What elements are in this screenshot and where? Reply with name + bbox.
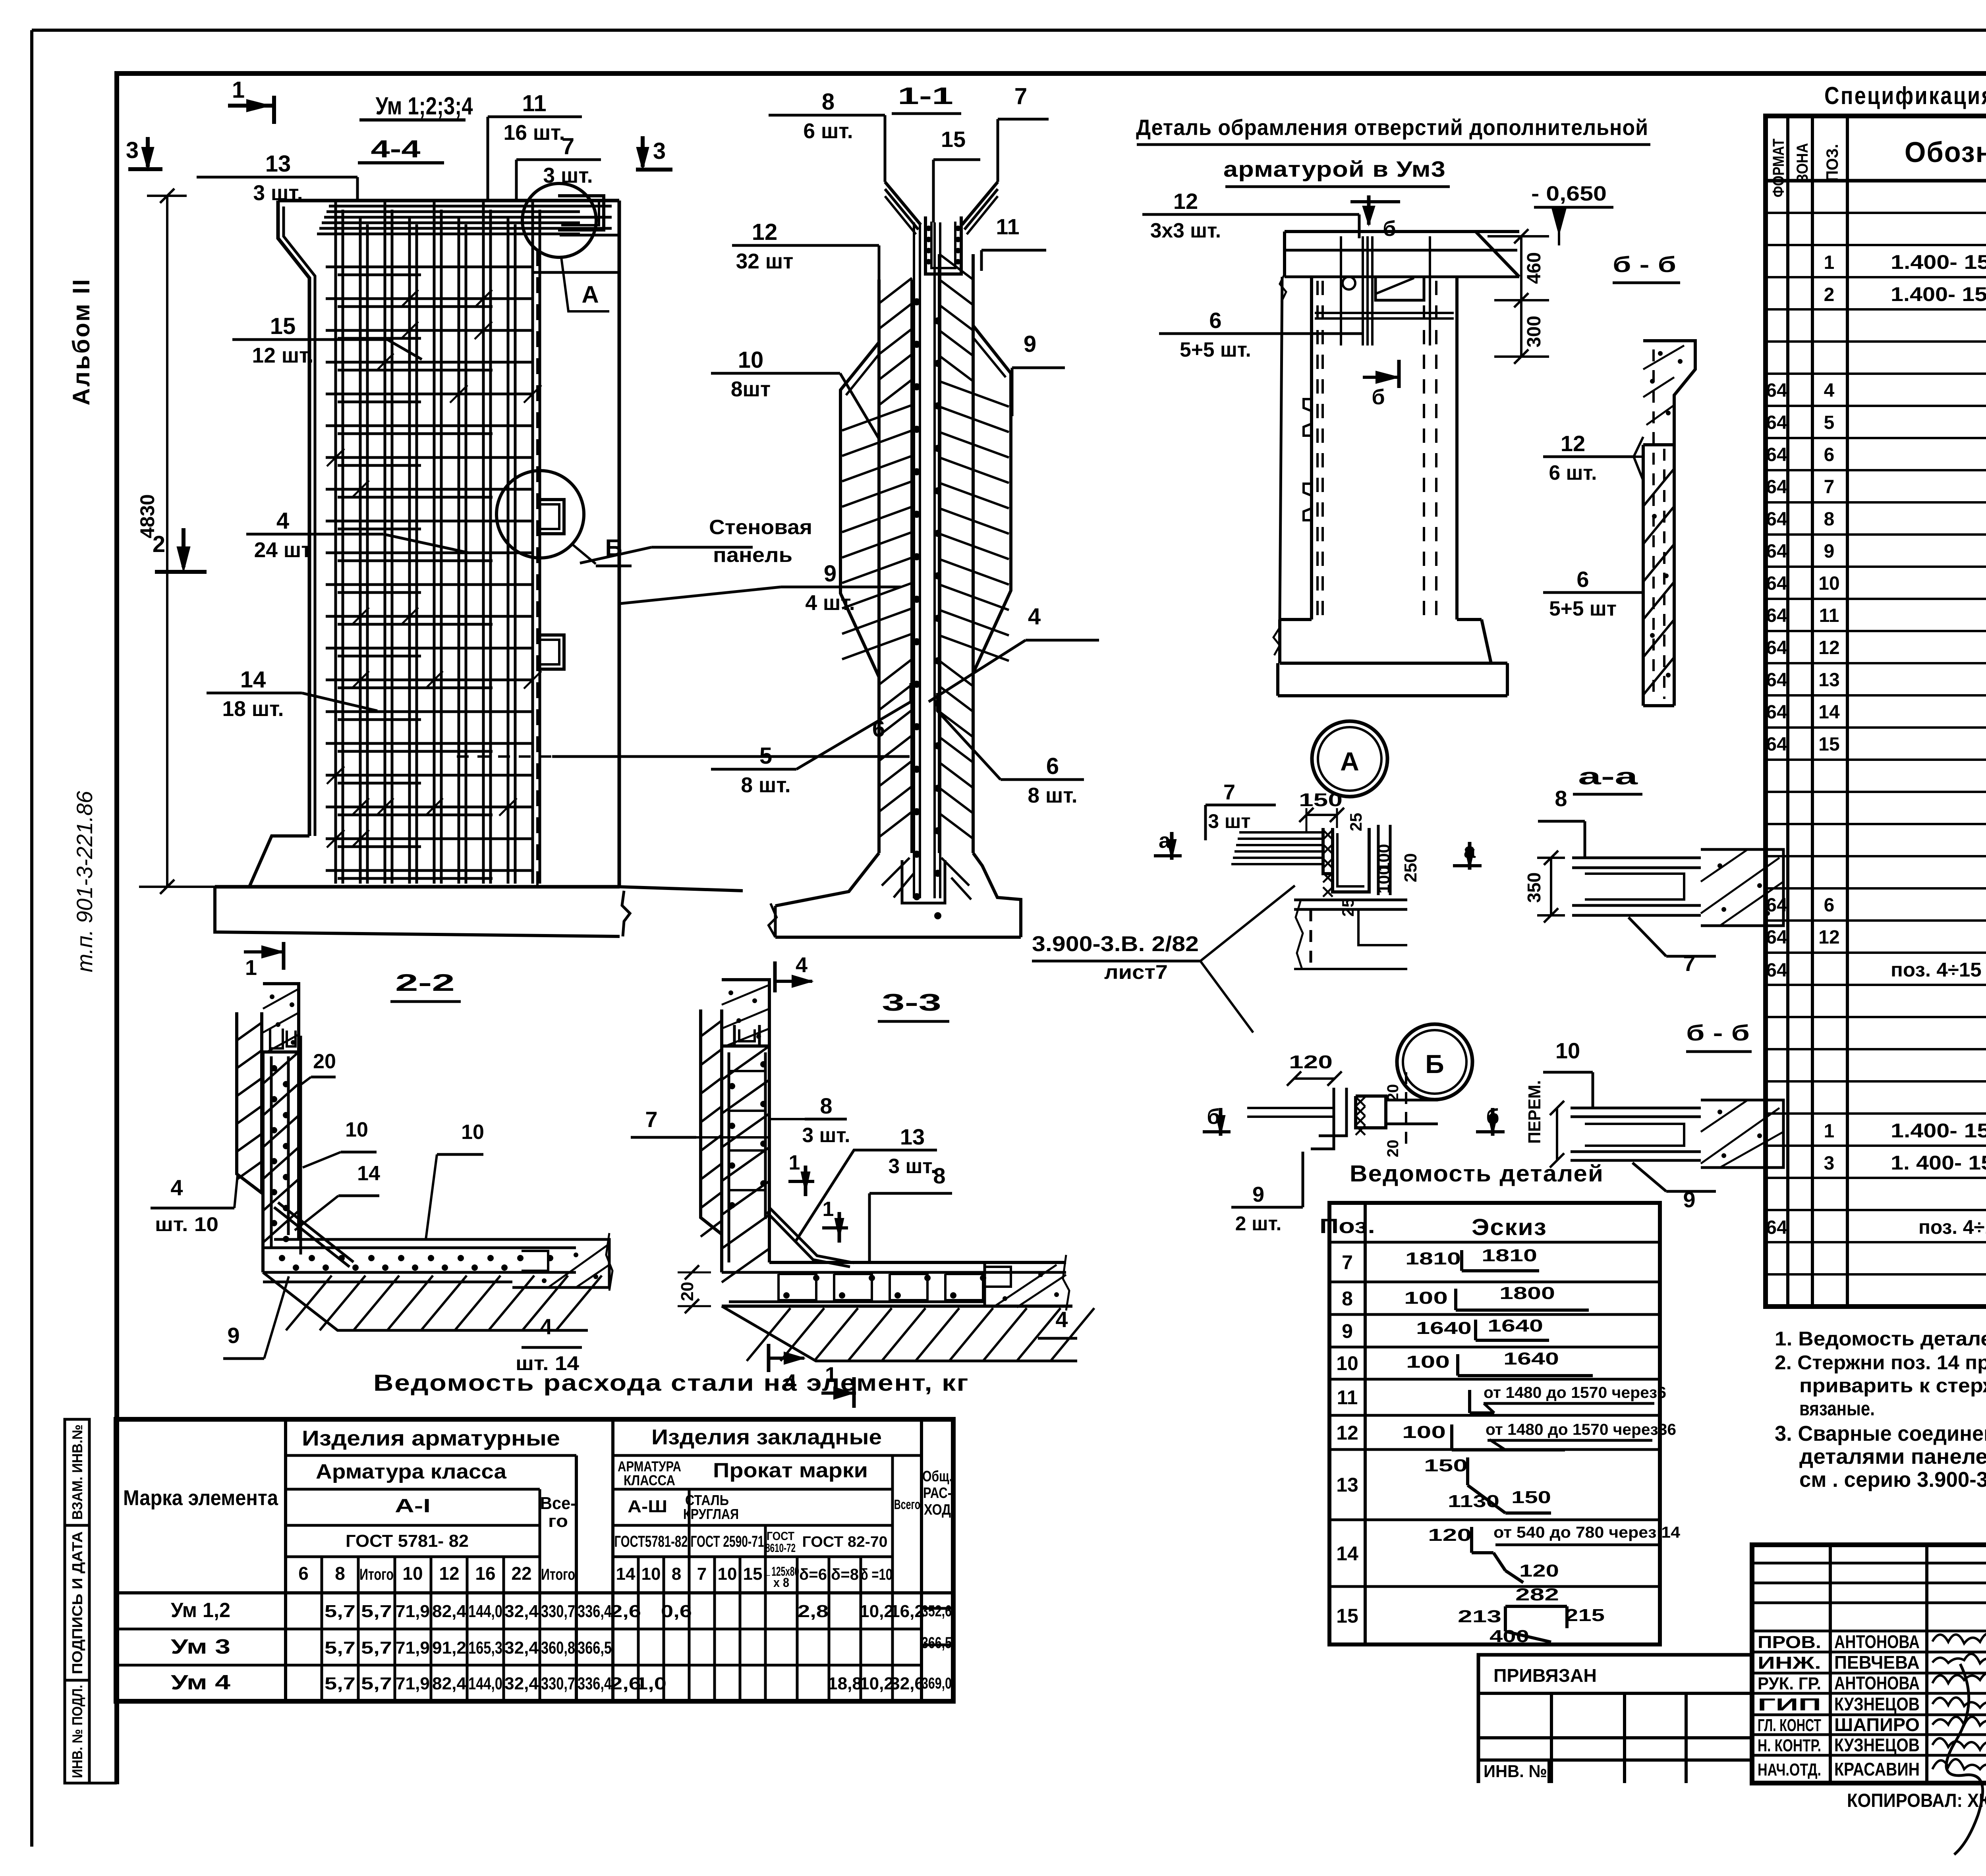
- detail A panel below: [1294, 899, 1407, 901]
- title block row labels: [1752, 1630, 1986, 1633]
- b section mark top: [1367, 195, 1371, 225]
- svg-text:НАЧ.ОТД.: НАЧ.ОТД.: [1758, 1760, 1821, 1779]
- svg-text:8: 8: [1555, 786, 1567, 811]
- svg-text:2,6: 2,6: [610, 1602, 641, 1621]
- svg-text:Н. КОНТР.: Н. КОНТР.: [1758, 1736, 1821, 1755]
- svg-text:ПОЗ.: ПОЗ.: [1823, 144, 1841, 182]
- svg-text:150: 150: [1511, 1488, 1551, 1507]
- svg-text:5,7: 5,7: [325, 1602, 355, 1621]
- dimension 4830 left: [166, 196, 168, 887]
- svg-text:10: 10: [718, 1564, 737, 1584]
- detail B plate drawing: [1311, 1088, 1334, 1149]
- 3-3 left hatch band existing wall: [701, 1009, 722, 1234]
- panel bottom-left step: [250, 836, 309, 886]
- foundation slab 4-4: [215, 887, 620, 936]
- svg-text:1640: 1640: [1503, 1349, 1559, 1368]
- svg-text:14: 14: [616, 1564, 636, 1584]
- column center rebar pairs: [913, 222, 915, 898]
- svg-text:б: б: [1372, 385, 1385, 409]
- svg-text:ПРОВ.: ПРОВ.: [1758, 1633, 1821, 1652]
- outer sheet border: [32, 29, 1986, 32]
- 2-2 rebar 20 line: [299, 1036, 302, 1255]
- 2-2 top U notch pair: [270, 1029, 283, 1048]
- a-a concrete block right: [1701, 849, 1783, 926]
- svg-text:КЛАССА: КЛАССА: [624, 1472, 675, 1488]
- svg-text:РУК. ГР.: РУК. ГР.: [1758, 1674, 1821, 1693]
- svg-text:150: 150: [1299, 789, 1343, 810]
- svg-text:64: 64: [1766, 509, 1787, 530]
- svg-text:1130: 1130: [1448, 1492, 1499, 1511]
- svg-text:ИНЖ.: ИНЖ.: [1758, 1653, 1821, 1673]
- svg-text:5,7: 5,7: [361, 1602, 392, 1621]
- svg-text:от 1480 до 1570 через36: от 1480 до 1570 через36: [1486, 1421, 1676, 1438]
- b-b lower concrete right: [1701, 1100, 1783, 1168]
- svg-text:10: 10: [402, 1563, 423, 1584]
- svg-text:9: 9: [1824, 541, 1835, 562]
- svg-text:100: 100: [1402, 1422, 1446, 1442]
- svg-text:1.400- 15.В1. 150-23: 1.400- 15.В1. 150-23: [1891, 1119, 1986, 1142]
- svg-text:ГОСТ5781-82: ГОСТ5781-82: [614, 1533, 688, 1550]
- svg-text:120: 120: [1289, 1052, 1333, 1072]
- svg-text:2,8: 2,8: [798, 1602, 829, 1621]
- detail B panel lines left: [1247, 1107, 1335, 1109]
- svg-text:32 шт: 32 шт: [736, 250, 794, 273]
- svg-text:330,7: 330,7: [541, 1674, 575, 1693]
- svg-text:82,4: 82,4: [432, 1602, 467, 1621]
- svg-text:КРУГЛАЯ: КРУГЛАЯ: [683, 1506, 739, 1522]
- pedestal taper hatch: [882, 858, 971, 899]
- svg-text:3.900-3.В. 2/82: 3.900-3.В. 2/82: [1032, 932, 1199, 956]
- svg-text:91,2: 91,2: [432, 1638, 466, 1658]
- svg-text:Ум 4: Ум 4: [171, 1671, 230, 1694]
- svg-text:8: 8: [822, 89, 835, 115]
- detail A break squiggle: [1296, 900, 1303, 969]
- svg-text:ПЕВЧЕВА: ПЕВЧЕВА: [1834, 1652, 1920, 1673]
- svg-text:δ=6: δ=6: [799, 1566, 827, 1583]
- svg-text:14: 14: [1818, 702, 1840, 723]
- svg-text:5: 5: [759, 743, 772, 769]
- svg-text:8 шт.: 8 шт.: [741, 774, 790, 797]
- 3-3 inner stirrups column: [728, 1052, 730, 1262]
- svg-text:71,9: 71,9: [396, 1602, 430, 1621]
- elevation horizontal bars top (poz 6): [1315, 312, 1454, 314]
- svg-text:δ=8: δ=8: [831, 1566, 859, 1583]
- svg-text:2 шт.: 2 шт.: [1235, 1212, 1282, 1235]
- detail circle A on 4-4: [522, 183, 596, 257]
- svg-text:64: 64: [1766, 412, 1787, 433]
- svg-text:Спецификация монолитных уч: Спецификация монолитных участков стен: [1824, 82, 1986, 110]
- 2-2 wall panel top concrete: [263, 984, 299, 1052]
- svg-text:Итого: Итого: [359, 1566, 394, 1583]
- svg-text:ВЗАМ. ИНВ.№: ВЗАМ. ИНВ.№: [69, 1424, 85, 1520]
- svg-text:10: 10: [641, 1564, 661, 1584]
- svg-text:8: 8: [335, 1563, 345, 1584]
- svg-text:т.п. 901-3-221.86: т.п. 901-3-221.86: [72, 791, 97, 973]
- svg-text:120: 120: [1519, 1561, 1559, 1581]
- svg-text:20: 20: [678, 1282, 697, 1301]
- svg-text:10: 10: [1336, 1352, 1358, 1374]
- svg-text:352,6: 352,6: [922, 1602, 952, 1620]
- svg-text:64: 64: [1766, 444, 1787, 465]
- 2-2 section mark 1 top: [244, 950, 284, 953]
- svg-text:поз. 4÷15 см. Ум1: поз. 4÷15 см. Ум1: [1918, 1216, 1986, 1238]
- svg-text:14: 14: [240, 667, 266, 693]
- elevation body: [1310, 277, 1313, 620]
- svg-text:Изделия закладные: Изделия закладные: [651, 1425, 882, 1449]
- dim 460 300 right: [1520, 236, 1522, 357]
- elevation pedestal: [1280, 618, 1312, 621]
- svg-text:64: 64: [1766, 702, 1787, 723]
- svg-text:13: 13: [265, 151, 291, 177]
- big signature flourish: [1946, 1664, 1983, 1855]
- svg-text:5,7: 5,7: [361, 1674, 392, 1693]
- 3-3 right end concrete block: [983, 1262, 986, 1307]
- svg-text:12: 12: [439, 1563, 459, 1584]
- svg-text:Ведомость деталей: Ведомость деталей: [1350, 1161, 1604, 1187]
- detail A vertical bars: [1377, 825, 1380, 895]
- svg-text:2. Стержни поз. 14 привар: 2. Стержни поз. 14 приварить к стержням …: [1775, 1351, 1986, 1374]
- svg-text:Ум 3: Ум 3: [171, 1635, 230, 1658]
- svg-text:Эскиз: Эскиз: [1472, 1214, 1547, 1240]
- svg-text:4830: 4830: [136, 494, 158, 538]
- b-b wall middle with rebar: [1642, 445, 1645, 706]
- svg-text:25: 25: [1347, 813, 1365, 832]
- svg-text:3: 3: [126, 137, 139, 163]
- svg-text:7: 7: [1014, 83, 1027, 109]
- svg-text:9: 9: [824, 561, 837, 587]
- elevation left outer edge full height: [1280, 277, 1282, 620]
- svg-text:Арматура класса: Арматура класса: [316, 1460, 507, 1483]
- svg-text:120: 120: [1428, 1525, 1472, 1545]
- svg-text:Изделия арматурные: Изделия арматурные: [302, 1426, 560, 1450]
- svg-text:5,7: 5,7: [325, 1638, 355, 1658]
- steel table vertical cell lines: [321, 1557, 323, 1701]
- svg-text:8 шт.: 8 шт.: [1028, 784, 1077, 807]
- svg-text:1. Ведомость деталей см.: 1. Ведомость деталей см. на листе КЖ-21.: [1775, 1328, 1986, 1350]
- stamp box INV N PODL: [65, 1680, 89, 1783]
- svg-text:71,9: 71,9: [396, 1674, 430, 1693]
- svg-text:ГИП: ГИП: [1758, 1695, 1821, 1714]
- svg-text:14: 14: [357, 1162, 380, 1185]
- detail B circle label: [1397, 1024, 1472, 1100]
- svg-text:ПОДПИСЬ И ДАТА: ПОДПИСЬ И ДАТА: [69, 1531, 85, 1674]
- steel table header lines: [284, 1419, 287, 1701]
- pedestal stirrup bottom: [902, 860, 945, 903]
- svg-text:3. Сварные соединения арм: 3. Сварные соединения арматурных стержне…: [1775, 1422, 1986, 1446]
- svg-text:ПРИВЯЗАН: ПРИВЯЗАН: [1493, 1665, 1597, 1686]
- elevation inner dashed bars: [1316, 281, 1319, 618]
- svg-text:1: 1: [823, 1198, 834, 1221]
- svg-text:11: 11: [996, 214, 1019, 239]
- svg-text:15: 15: [270, 313, 296, 339]
- 3-3 horizontal leg: [769, 1261, 1066, 1264]
- svg-text:4: 4: [1824, 380, 1835, 401]
- b section mark bottom: [1397, 360, 1401, 388]
- b-b hatch lower: [1643, 469, 1674, 695]
- svg-text:64: 64: [1766, 573, 1787, 594]
- rebar grid verticals 4-4 (pairs): [336, 202, 540, 884]
- rebar grid horizontals 4-4 (pairs: full + short): [326, 267, 533, 878]
- svg-text:369,0: 369,0: [922, 1675, 952, 1692]
- elevation notches left: [1304, 399, 1312, 436]
- svg-text:144,0: 144,0: [468, 1602, 502, 1621]
- svg-text:400: 400: [1489, 1627, 1529, 1646]
- svg-text:3: 3: [653, 138, 666, 164]
- 2-2 inner stirrups column: [270, 1056, 273, 1247]
- svg-text:4: 4: [796, 953, 808, 977]
- svg-text:100: 100: [1374, 866, 1393, 894]
- svg-text:71,9: 71,9: [396, 1638, 430, 1658]
- svg-text:64: 64: [1766, 477, 1787, 498]
- svg-text:18 шт.: 18 шт.: [222, 697, 284, 721]
- svg-text:300: 300: [1524, 316, 1545, 347]
- stamp box VZAM INV: [65, 1419, 89, 1525]
- svg-text:б - б: б - б: [1613, 252, 1676, 277]
- svg-text:3 шт.: 3 шт.: [253, 181, 303, 205]
- svg-text:ПЕРЕМ.: ПЕРЕМ.: [1525, 1080, 1544, 1144]
- 2-2 right end concrete block: [508, 1241, 508, 1287]
- privyazan table strip: [1478, 1655, 1752, 1783]
- svg-text:от 540 до 780 через 14: от 540 до 780 через 14: [1493, 1524, 1681, 1541]
- 3-3 leg stirrup boxes: [779, 1274, 816, 1300]
- svg-text:КРАСАВИН: КРАСАВИН: [1834, 1759, 1920, 1779]
- svg-text:3 шт.: 3 шт.: [543, 164, 593, 187]
- detail A corner plate: [1323, 828, 1333, 874]
- detail A hatch X on plate: [1323, 830, 1333, 897]
- detail A rebar bundle horizontals: [1231, 832, 1323, 864]
- 3-3 vertical wall hatched: [720, 1046, 723, 1272]
- svg-text:16 шт.: 16 шт.: [504, 121, 565, 145]
- svg-text:22: 22: [511, 1563, 531, 1584]
- svg-text:20: 20: [1384, 1084, 1402, 1102]
- svg-text:336,4: 336,4: [578, 1674, 612, 1693]
- svg-text:4: 4: [276, 508, 289, 534]
- svg-text:11: 11: [1819, 605, 1839, 626]
- elevation verticals solid (rebars poz 12): [1340, 236, 1342, 345]
- svg-text:2: 2: [1824, 284, 1835, 305]
- svg-text:1-1: 1-1: [898, 83, 953, 109]
- svg-text:360,8: 360,8: [541, 1638, 575, 1658]
- svg-text:10: 10: [738, 347, 764, 373]
- b-b lower drawing: [1571, 1107, 1701, 1110]
- svg-text:144,0: 144,0: [468, 1674, 502, 1693]
- svg-text:8: 8: [820, 1093, 832, 1118]
- section mark 4 top 3-3: [773, 961, 777, 992]
- svg-text:336,4: 336,4: [578, 1602, 612, 1621]
- section mark 1 top: [228, 104, 274, 108]
- svg-text:100: 100: [1406, 1352, 1450, 1372]
- svg-text:15: 15: [1818, 734, 1839, 755]
- svg-text:32,4: 32,4: [504, 1602, 539, 1621]
- svg-text:10,2: 10,2: [860, 1602, 894, 1621]
- svg-text:9: 9: [227, 1323, 240, 1348]
- svg-text:213: 213: [1458, 1607, 1501, 1626]
- svg-text:7: 7: [1824, 477, 1835, 498]
- svg-text:20: 20: [313, 1050, 336, 1073]
- 3-3 wall panel top concrete: [722, 980, 769, 1046]
- 2-2 horizontal leg: [274, 1238, 522, 1241]
- svg-text:82,4: 82,4: [432, 1674, 467, 1693]
- svg-text:ГОСТ 2590-71: ГОСТ 2590-71: [691, 1533, 764, 1550]
- svg-text:366,5: 366,5: [578, 1638, 612, 1658]
- svg-text:лист7: лист7: [1104, 961, 1168, 983]
- svg-text:1640: 1640: [1416, 1318, 1472, 1338]
- svg-text:3: 3: [1824, 1153, 1835, 1174]
- svg-text:64: 64: [1766, 637, 1787, 658]
- svg-text:165,3: 165,3: [468, 1638, 502, 1658]
- title block top rows: [1752, 1562, 1986, 1565]
- 2-2 diagonal bar poz14: [274, 1207, 350, 1267]
- svg-text:6: 6: [1824, 895, 1835, 916]
- svg-text:Всего: Всего: [894, 1497, 920, 1512]
- svg-text:Ум 1;2;3;4: Ум 1;2;3;4: [376, 93, 473, 120]
- svg-text:Поз.: Поз.: [1319, 1215, 1375, 1238]
- svg-text:х 8: х 8: [773, 1575, 789, 1590]
- svg-text:1810: 1810: [1482, 1246, 1537, 1265]
- svg-text:вязаные.: вязаные.: [1799, 1397, 1875, 1420]
- svg-text:64: 64: [1766, 605, 1787, 626]
- svg-text:6: 6: [1824, 444, 1835, 465]
- svg-text:64: 64: [1766, 1217, 1787, 1238]
- svg-text:1.400- 15.В 1. 120-50: 1.400- 15.В 1. 120-50: [1891, 283, 1986, 305]
- svg-text:Все-: Все-: [540, 1494, 576, 1513]
- svg-text:АНТОНОВА: АНТОНОВА: [1834, 1631, 1920, 1652]
- svg-text:25: 25: [1339, 898, 1357, 917]
- svg-text:Ум 1,2: Ум 1,2: [171, 1599, 230, 1622]
- 2-2 vertical wall hatched: [261, 1052, 265, 1272]
- vedomost detaley grid: [1329, 1203, 1660, 1644]
- svg-text:ГОСТ 82-70: ГОСТ 82-70: [802, 1534, 888, 1550]
- svg-text:9: 9: [1024, 331, 1036, 357]
- rebar top bundle horizontals: [317, 206, 612, 234]
- svg-text:1800: 1800: [1499, 1283, 1555, 1303]
- svg-text:ГОСТ 5781- 82: ГОСТ 5781- 82: [346, 1531, 469, 1551]
- svg-text:15: 15: [941, 127, 966, 152]
- svg-text:6: 6: [1209, 308, 1221, 333]
- svg-text:АНТОНОВА: АНТОНОВА: [1834, 1673, 1920, 1693]
- svg-text:5,7: 5,7: [361, 1638, 392, 1658]
- svg-text:4-4: 4-4: [371, 135, 421, 163]
- svg-text:1: 1: [789, 1151, 800, 1174]
- svg-text:32,4: 32,4: [504, 1638, 539, 1658]
- svg-text:КОПИРОВАЛ: ХЮППЕНЕН: КОПИРОВАЛ: ХЮППЕНЕН: [1847, 1790, 1986, 1811]
- svg-text:3 шт.: 3 шт.: [802, 1123, 850, 1146]
- svg-text:32,6: 32,6: [890, 1674, 924, 1693]
- b-b wall section: [1643, 341, 1695, 445]
- svg-text:ИНВ. №: ИНВ. №: [1484, 1762, 1547, 1781]
- svg-text:64: 64: [1766, 380, 1787, 401]
- svg-text:ГОСТ: ГОСТ: [767, 1530, 794, 1543]
- svg-text:14: 14: [1336, 1542, 1358, 1565]
- svg-text:3-3: 3-3: [882, 989, 941, 1016]
- svg-text:Б: Б: [1425, 1049, 1444, 1079]
- svg-text:ФОРМАТ: ФОРМАТ: [1770, 139, 1787, 197]
- column hatch left strip: [842, 278, 912, 837]
- svg-text:А: А: [582, 281, 599, 308]
- section mark 3 right: [636, 168, 672, 172]
- svg-text:шт. 10: шт. 10: [155, 1213, 218, 1235]
- svg-text:1640: 1640: [1488, 1316, 1543, 1336]
- svg-text:64: 64: [1766, 541, 1787, 562]
- svg-text:А-Ш: А-Ш: [628, 1497, 667, 1516]
- svg-text:3 шт: 3 шт: [1208, 810, 1250, 832]
- svg-text:8: 8: [1342, 1287, 1353, 1310]
- detail A circle label: [1312, 721, 1387, 797]
- svg-text:24 шт: 24 шт: [254, 538, 312, 562]
- svg-text:64: 64: [1766, 960, 1787, 981]
- svg-text:7: 7: [697, 1564, 707, 1584]
- svg-text:2-2: 2-2: [395, 969, 455, 996]
- svg-text:поз. 4÷15 см. Ум1; Ум2: поз. 4÷15 см. Ум1; Ум2: [1891, 959, 1986, 981]
- svg-text:Стеновая: Стеновая: [709, 516, 812, 539]
- 2-2 bottom slab hatch band: [263, 1272, 588, 1330]
- svg-text:8: 8: [933, 1163, 945, 1188]
- svg-text:1.400- 15.В1. 150-23: 1.400- 15.В1. 150-23: [1891, 251, 1986, 273]
- svg-text:от 1480 до 1570 через6: от 1480 до 1570 через6: [1484, 1384, 1666, 1401]
- svg-text:6: 6: [1576, 567, 1589, 592]
- svg-text:6: 6: [1046, 753, 1059, 779]
- svg-text:6: 6: [298, 1563, 309, 1584]
- svg-text:6 шт.: 6 шт.: [1549, 461, 1597, 484]
- svg-text:7: 7: [562, 133, 574, 159]
- stamp box PODPIS I DATA: [65, 1525, 89, 1680]
- svg-text:1: 1: [825, 1363, 837, 1387]
- svg-text:8: 8: [672, 1564, 681, 1584]
- svg-text:10,2: 10,2: [860, 1674, 894, 1693]
- svg-text:А: А: [1340, 747, 1359, 776]
- detail circle B on 4-4: [496, 471, 584, 558]
- svg-text:11: 11: [522, 91, 546, 116]
- svg-text:4: 4: [1055, 1307, 1068, 1332]
- column strips 1-1: [877, 280, 881, 853]
- svg-text:арматурой в Ум3: арматурой в Ум3: [1223, 156, 1446, 181]
- svg-text:Общ.: Общ.: [922, 1468, 952, 1485]
- svg-text:7: 7: [1683, 951, 1695, 976]
- elevation outline top beam: [1285, 230, 1519, 233]
- svg-text:11: 11: [1337, 1386, 1358, 1409]
- svg-text:Обозначение: Обозначение: [1905, 137, 1986, 168]
- panel right dashed inner line: [536, 250, 539, 886]
- svg-text:18,8: 18,8: [828, 1674, 862, 1693]
- svg-text:Итого: Итого: [541, 1566, 575, 1583]
- title block outer: [1752, 1545, 1986, 1783]
- svg-text:10: 10: [345, 1118, 368, 1141]
- svg-text:13: 13: [1336, 1474, 1358, 1496]
- svg-text:8: 8: [1824, 509, 1835, 530]
- svg-text:КУЗНЕЦОВ: КУЗНЕЦОВ: [1834, 1694, 1920, 1714]
- signatures squiggles: [1932, 1631, 1986, 1773]
- svg-text:6 шт.: 6 шт.: [803, 120, 853, 143]
- section mark 3 left: [128, 167, 162, 171]
- svg-text:деталями панелей и армату: деталями панелей и арматурных стержней м…: [1799, 1445, 1986, 1469]
- svg-text:20: 20: [1384, 1140, 1402, 1158]
- svg-text:4: 4: [784, 1370, 796, 1394]
- column wings right: [973, 326, 1011, 673]
- svg-text:4: 4: [1028, 604, 1041, 629]
- stirrup U detail top 1-1: [925, 216, 961, 274]
- svg-text:8610-72: 8610-72: [765, 1542, 796, 1555]
- svg-text:1,0: 1,0: [636, 1674, 667, 1693]
- svg-text:7: 7: [1342, 1251, 1353, 1274]
- svg-text:Альбом II: Альбом II: [68, 278, 95, 405]
- svg-text:- 0,650: - 0,650: [1531, 182, 1607, 205]
- svg-text:8шт: 8шт: [731, 378, 771, 401]
- steel table grid outer: [116, 1419, 953, 1701]
- svg-text:7: 7: [1223, 780, 1235, 804]
- 3-3 bottom section mark 4: [767, 1344, 771, 1372]
- shponka notches right edge: [558, 196, 604, 230]
- svg-text:460: 460: [1524, 252, 1545, 284]
